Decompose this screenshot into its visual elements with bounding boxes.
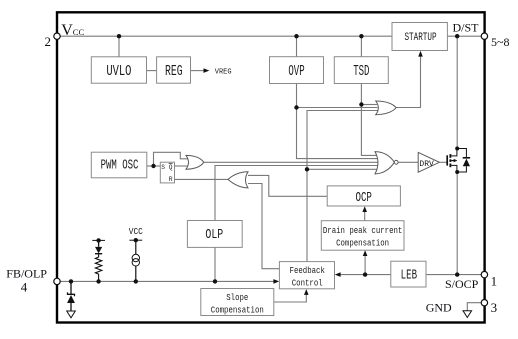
junction dot TSD-OR3 branch <box>359 102 363 106</box>
wire Vcc top rail <box>57 35 392 37</box>
wire sense node up to Drain peak compensation <box>364 253 366 275</box>
junction dot OVP-OR3 branch <box>294 105 298 109</box>
wire TSD branch to OR gate U3 <box>361 104 377 106</box>
junction dot sense-LEB line <box>363 272 367 276</box>
block OLP <box>187 221 242 248</box>
wire OR gate U2 output to NOR gate U4 <box>204 161 379 163</box>
wire LEB to S/OCP pin <box>426 274 484 276</box>
node stub above diode D3 <box>92 238 105 242</box>
svg-text:UVLO: UVLO <box>106 62 131 79</box>
junction dot zener-FB rail <box>69 279 73 283</box>
junction dot MOSFET source <box>455 170 459 174</box>
wire DRV to gate <box>439 161 447 163</box>
block UVLO <box>91 57 146 83</box>
junction dot current source-FB rail <box>134 279 138 283</box>
svg-text:DRV: DRV <box>419 160 433 169</box>
pin 3 GND <box>481 300 487 306</box>
wire NOR gate U4 output to DRV <box>398 161 418 163</box>
svg-text:Q: Q <box>169 164 173 171</box>
wire TSD output down to gates <box>361 84 379 156</box>
ground at GND pin <box>463 311 472 318</box>
junction dot D/ST node <box>455 34 459 38</box>
zener diode D2 on FB pin <box>67 281 75 311</box>
block LEB <box>391 261 426 287</box>
arrowhead into Feedback Control right <box>335 272 341 277</box>
svg-text:5~8: 5~8 <box>491 35 510 49</box>
arrowhead VREG <box>204 68 210 73</box>
wire MOSFET source to sense line <box>456 172 458 275</box>
block OVP <box>270 57 324 84</box>
svg-text:Drain peak current: Drain peak current <box>323 227 403 237</box>
wire feedback branch to NOR gate U4 <box>307 168 378 170</box>
label VCC <box>129 227 143 238</box>
svg-text:TSD: TSD <box>353 63 369 80</box>
junction dot MOSFET source-sense <box>455 272 459 276</box>
svg-text:Slope: Slope <box>226 293 248 303</box>
wire OVP output down to gates <box>297 84 381 159</box>
svg-text:Feedback: Feedback <box>290 267 325 277</box>
svg-text:Compensation: Compensation <box>336 239 389 249</box>
pin 1 S/OCP <box>481 271 487 277</box>
svg-text:S: S <box>161 164 165 171</box>
svg-text:OLP: OLP <box>205 226 223 242</box>
or-gate U3 <box>376 101 397 115</box>
wire STARTUP output to D/ST pin <box>447 35 484 37</box>
svg-text:GND: GND <box>426 301 452 315</box>
diode D1 MOSFET body diode <box>457 149 470 173</box>
arrowhead into OCP <box>362 206 367 212</box>
block REG <box>157 57 191 83</box>
transistor Q1 power MOSFET <box>447 149 457 173</box>
svg-text:1: 1 <box>491 274 498 289</box>
svg-text:VREG: VREG <box>215 68 232 76</box>
wire TSD supply stub <box>360 36 362 57</box>
svg-text:S/OCP: S/OCP <box>445 277 479 291</box>
nor-gate U4 <box>375 152 398 174</box>
wire MOSFET drain from D/ST <box>456 36 458 148</box>
arrowhead into Drain peak compensation <box>363 250 368 256</box>
wire PWM OSC clock over latch to OR gate U2 <box>154 152 189 166</box>
wire UVLO to REG <box>147 70 157 72</box>
buffer DRV <box>418 152 439 172</box>
or-gate U5 (mirrored) <box>228 172 248 188</box>
wire OR gate U3 output to STARTUP <box>396 56 420 108</box>
svg-text:PWM OSC: PWM OSC <box>101 158 139 173</box>
block Slope Compensation <box>201 289 274 316</box>
pin 2 Vcc <box>54 33 60 39</box>
junction dot PWM OSC output <box>151 164 155 168</box>
svg-text:R: R <box>169 176 173 183</box>
latch U1 SR <box>160 162 174 183</box>
wire GND pin to ground <box>467 303 481 311</box>
block STARTUP <box>392 23 447 51</box>
wire feedback node to OR gate U3 <box>307 111 378 262</box>
block Feedback Control <box>279 262 334 289</box>
svg-text:4: 4 <box>21 279 28 294</box>
svg-text:2: 2 <box>45 34 52 49</box>
junction dot resistor-FB rail <box>96 279 100 283</box>
arrowhead into Feedback Control bottom <box>304 289 309 295</box>
svg-text:OVP: OVP <box>288 63 304 80</box>
wire LEB to Feedback Control <box>338 274 391 276</box>
resistor R1 <box>95 254 101 282</box>
junction dot feedback-NOR branch <box>305 167 309 171</box>
wire OVP supply stub <box>296 36 298 57</box>
svg-text:LEB: LEB <box>401 267 417 283</box>
svg-text:3: 3 <box>491 300 498 315</box>
junction dot OLP-FB rail <box>213 279 217 283</box>
wire OCP comparator input from current sense <box>364 209 366 221</box>
ground under zener <box>67 311 76 318</box>
svg-text:Control: Control <box>292 279 323 289</box>
current source I1 <box>132 240 139 281</box>
arrowhead into STARTUP <box>418 51 423 57</box>
svg-text:Compensation: Compensation <box>211 306 264 316</box>
wire Slope Compensation to Feedback Control <box>274 292 307 302</box>
wire FB/OLP rail <box>57 280 277 282</box>
svg-text:REG: REG <box>165 63 183 79</box>
svg-text:VCC: VCC <box>129 227 143 238</box>
pin 4 FB/OLP <box>54 278 60 284</box>
wire Feedback Control output to OR gate U5 <box>248 184 279 269</box>
wire latch Qbar to OR gate U2 <box>175 165 189 167</box>
arrowhead into Feedback Control left <box>273 279 279 284</box>
label VREG <box>215 68 232 76</box>
pin 5~8 D/ST <box>481 33 487 39</box>
wire REG to VREG arrow <box>191 70 206 72</box>
or-gate U2 <box>186 155 204 169</box>
junction dot MOSFET drain <box>455 147 459 151</box>
node stub VCC <box>129 238 142 242</box>
wire latch R from OR gate U5 <box>175 178 229 180</box>
wire UVLO supply stub <box>118 36 120 57</box>
wire OLP output to NOR gate U4 <box>215 166 379 221</box>
junction dot Vcc-OVP <box>294 34 298 38</box>
block PWM OSC <box>91 152 147 178</box>
block Drain peak current Compensation <box>321 221 404 251</box>
svg-text:STARTUP: STARTUP <box>404 31 436 44</box>
block OCP <box>327 186 400 206</box>
svg-text:OCP: OCP <box>355 189 371 206</box>
wire PWM OSC output to latch S <box>147 165 161 167</box>
wire OLP to FB rail <box>214 247 216 281</box>
svg-text:D/ST: D/ST <box>453 20 480 34</box>
junction dot Vcc-UVLO <box>117 34 121 38</box>
wire OVP branch to OR gate U3 <box>297 107 378 109</box>
diode D3 <box>95 240 102 253</box>
block TSD <box>334 57 388 84</box>
IC outer border <box>57 12 485 322</box>
wire OCP output to OR gate U5 <box>248 175 327 196</box>
junction dot Vcc-TSD <box>359 34 363 38</box>
